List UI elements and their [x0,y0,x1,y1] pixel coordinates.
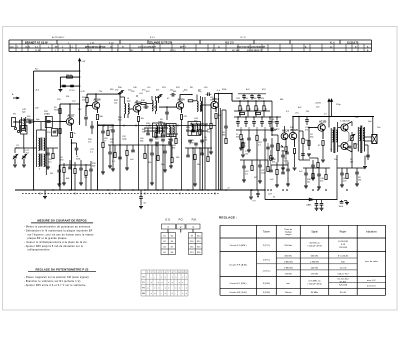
IF coils L3 [152,101,153,111]
svg-text:x: x [182,282,183,284]
wire [159,106,177,108]
transistor T6a AF126 [281,133,288,140]
wire input to T1 base [34,121,67,123]
emitter chain T5 [215,108,217,112]
capacitor row above B4 [242,95,246,97]
svg-text:FM: FM [142,288,145,290]
switch button GO [162,224,176,229]
wire under cans [144,130,165,132]
electrolytic C30 [140,190,142,196]
antenna FM [119,93,121,97]
resistor R3 divider [59,104,61,190]
wire row mid [234,110,270,112]
wire T7 base [309,127,318,129]
inter-stage caps upper belt [144,105,146,109]
switch button PO [177,224,186,229]
svg-text:2 (P.O.): 2 (P.O.) [263,260,271,262]
svg-text:OC 75: OC 75 [240,37,247,39]
svg-text:sur l'équerre, ceci vis axe de: sur l'équerre, ceci vis axe de liaison a… [28,233,95,236]
capacitor C25 [305,119,309,121]
switch stems [167,229,169,233]
svg-text:AF126: AF126 [282,130,290,133]
svg-text:4: 4 [158,272,159,274]
svg-text:AC127 AF117: AC127 AF117 [52,36,65,39]
svg-text:moyen: moyen [285,234,292,236]
transistor T5 AF114 [211,101,218,108]
cluster between T3 and T4 [167,133,178,135]
svg-text:0 mV D.V.: 0 mV D.V. [367,285,377,287]
svg-text:+13,5V: +13,5V [315,103,322,105]
svg-text:max. D.V.: max. D.V. [367,280,376,282]
svg-text:Circuits F.I. (A.M.): Circuits F.I. (A.M.) [229,244,246,247]
svg-text:+9V: +9V [82,61,86,63]
transistor T8 AC128 [341,124,348,131]
svg-text:15k: 15k [82,99,85,101]
capacitor C8 [165,111,169,113]
svg-text:170 kHz: 170 kHz [311,273,319,275]
svg-text:10: 10 [178,272,180,274]
svg-text:7: 7 [168,272,169,274]
svg-text:- Débrancher le fil maintenant: - Débrancher le fil maintenant la plaque… [24,229,93,232]
svg-text:1 380 kHz: 1 380 kHz [310,261,319,263]
svg-text:x: x [182,293,183,295]
rail pair left of T5 [202,97,204,190]
wire T2 base [86,105,93,107]
svg-text:2 (P.O.): 2 (P.O.) [263,245,271,247]
wire T1 collector [69,104,71,118]
svg-text:10k: 10k [281,151,284,153]
transistor T1 AF117 [66,118,73,125]
svg-text:3 (F.M.): 3 (F.M.) [263,283,271,285]
detector pair lower RC [267,143,269,165]
svg-text:C6 -C8: C6 -C8 [340,267,347,269]
bus right jog [264,190,266,200]
svg-text:F.M.: F.M. [192,218,197,222]
svg-text:AF117: AF117 [68,115,76,118]
svg-text:x: x [182,276,183,278]
svg-text:11: 11 [182,272,184,274]
svg-text:GO: GO [142,276,145,278]
svg-text:- Insérer le milliampèremètre: - Insérer le milliampèremètre à la place… [24,241,88,244]
svg-text:AF114: AF114 [178,99,186,102]
contact bank right [189,233,203,255]
svg-text:6,75 MHz via: 6,75 MHz via [309,281,322,283]
diode D2 [309,198,312,201]
wire left rail [33,71,35,190]
wire base T3 [128,108,133,110]
output stage lower wires [337,167,365,169]
svg-text:1k: 1k [74,133,76,135]
svg-text:- Placer l'appareil sur la pos: - Placer l'appareil sur la position FM (… [24,276,90,279]
svg-text:1 000 pF -N733: 1 000 pF -N733 [307,246,322,248]
svg-text:AC125: AC125 [319,121,327,124]
IF coils L4 [197,101,198,111]
cluster under T1 T2 [58,165,60,170]
tuning gang dashed coupling [38,150,40,170]
svg-text:3 (F.M.): 3 (F.M.) [263,292,271,294]
cluster under T2 right [98,124,115,126]
svg-text:12 W: 12 W [35,50,40,52]
ground stub A [44,190,46,196]
arrow mark left margin [13,97,18,99]
svg-text:205 1026-AHA APP: 205 1026-AHA APP [138,45,157,48]
IF can S1 boxed [153,123,166,137]
resistor R6 [86,98,88,103]
svg-text:x: x [179,288,180,290]
svg-text:12: 12 [185,272,187,274]
svg-text:630 kHz: 630 kHz [285,255,293,257]
ground [59,86,61,89]
svg-text:MESURE DU COURANT DE REPOS: MESURE DU COURANT DE REPOS [37,219,86,223]
ground [321,159,325,161]
emitter T7 [322,131,324,140]
AGC line crossing marks [103,124,105,126]
svg-text:- Ajuster R25 entre 0,3 et 0,7: - Ajuster R25 entre 0,3 et 0,7 V sur le … [24,284,87,287]
wire T1 base [60,121,67,123]
wire collectors [346,122,352,125]
svg-text:OA85: OA85 [306,204,312,207]
transistor T9 AC128 [341,142,348,149]
bus B3 supply [293,116,374,118]
wire [336,191,338,200]
svg-text:Régler: Régler [340,231,347,234]
resistor T6 load [302,139,304,144]
svg-text:x: x [168,282,169,284]
wire row two [234,116,281,118]
capacitor C3 [26,121,34,123]
ground [363,166,367,168]
title block table top [9,39,372,41]
mid cluster under IF strip [108,144,172,146]
resistor on T4 collector [188,100,193,102]
svg-text:REGLAGE DU POTENTIOMETRE P: REGLAGE DU POTENTIOMETRE P 25 [36,267,89,271]
T5 bias components [210,105,212,118]
wire bases push-pull [338,127,341,129]
AGC wire across IF strip [98,125,217,127]
wire T3 collector [136,100,138,105]
svg-text:1 (G.O.): 1 (G.O.) [263,271,271,273]
loudspeaker [372,135,377,144]
svg-text:x: x [186,276,187,278]
T6 T7 coupling [302,152,304,160]
svg-text:10n: 10n [334,159,337,161]
svg-text:6: 6 [165,272,166,274]
capacitor C1 [59,77,61,86]
ground [139,206,143,208]
capacitor C5 [90,125,94,127]
svg-text:94 MHz: 94 MHz [311,292,318,294]
emitter T6 [294,140,296,148]
node +9V arrow [79,60,81,125]
capacitor C6 box [21,126,28,135]
svg-text:OC71 OC72 2xOC74 AC107: OC71 OC72 2xOC74 AC107 [237,45,266,48]
svg-text:max. de sortie: max. de sortie [365,260,379,263]
svg-text:6 CV: 6 CV [109,42,114,44]
coil L2 double [125,104,126,114]
transistor T7 AC125 [318,124,325,131]
svg-text:Indications: Indications [366,231,378,234]
svg-text:milliampèremètre.: milliampèremètre. [28,249,51,252]
svg-text:15.25.8.70: 15.25.8.70 [347,41,359,44]
signal path dots [119,93,120,94]
contact bank left [161,233,176,255]
svg-text:203 kHz: 203 kHz [311,267,319,269]
resistor R7 emitter [97,109,99,114]
svg-text:Circuits F.I. (F.M.): Circuits F.I. (F.M.) [230,282,247,285]
svg-text:- Brancher le voltmètre sur R1: - Brancher le voltmètre sur R1 (échelle … [24,280,82,283]
svg-text:Signal: Signal [311,232,318,234]
svg-text:G.O.: G.O. [165,218,171,222]
resistor NTC [351,136,353,141]
svg-text:x: x [161,276,162,278]
svg-text:ZELANDE 22 TR 278: ZELANDE 22 TR 278 [149,41,173,44]
wire antenna feed [119,97,121,191]
ground [345,202,349,204]
capacitor C31 [316,200,318,203]
ground stub B [250,190,252,196]
wire vertical pair [328,100,330,128]
svg-text:S25-S28: S25-S28 [339,284,348,286]
transistor T6 AC126 [289,132,296,139]
wire [201,104,212,106]
wire T5 collector [214,94,216,102]
capacitor C2 [70,84,74,86]
svg-text:S4 -S2: S4 -S2 [340,292,347,294]
trim capacitor CV1 [13,155,17,157]
wire T2 collector [95,94,97,102]
svg-text:10n: 10n [377,127,380,129]
svg-text:P.O.: P.O. [179,218,184,222]
svg-text:330k: 330k [54,109,58,111]
svg-text:1 390 kHz: 1 390 kHz [284,267,293,269]
svg-text:550 kHz: 550 kHz [284,245,292,247]
third row [236,129,276,131]
wire bottom right [299,159,310,161]
wire T6 base [288,135,290,137]
svg-text:BRANDT A7 X3 W: BRANDT A7 X3 W [25,41,48,44]
parts below cans [149,138,153,140]
svg-text:170 kHz: 170 kHz [285,273,293,275]
svg-text:2: 2 [151,272,152,274]
emitter chain T4 [181,109,183,114]
svg-text:AF116: AF116 [94,99,102,102]
svg-text:C20-S24: C20-S24 [339,247,348,249]
oscillator coil L1b [39,154,40,167]
AM detector second tier [240,159,268,161]
resistor bias [242,138,244,154]
capacitor C32 [321,200,323,203]
svg-text:AM: AM [142,292,145,295]
wire T6 collector [292,117,294,133]
chassis bus [15,189,265,191]
svg-text:R1 1k: R1 1k [67,74,72,76]
svg-text:41 A: 41 A [330,41,335,44]
svg-text:Stéréo: Stéréo [285,291,292,294]
svg-text:OA79: OA79 [274,128,280,131]
svg-text:1 500 pF -N732: 1 500 pF -N732 [307,284,322,286]
svg-text:630 kHz: 630 kHz [311,255,319,257]
svg-text:8: 8 [172,272,173,274]
switch button FM [186,224,200,229]
connector circles input [14,127,16,129]
battery 9V [257,190,259,198]
svg-text:APP 7: APP 7 [180,45,187,48]
svg-text:x: x [168,288,169,290]
svg-text:PU: PU [13,114,16,116]
resistor R1 filter [60,76,79,78]
svg-text:10n: 10n [128,90,131,92]
svg-text:REGLAGE :: REGLAGE : [219,215,237,219]
svg-text:452 kHz ou: 452 kHz ou [309,243,319,245]
bus B4 [232,100,272,102]
svg-text:3: 3 [154,272,155,274]
svg-text:9: 9 [175,272,176,274]
svg-text:C26-C7 S17: C26-C7 S17 [337,273,349,275]
svg-text:B 5 X: B 5 X [150,37,156,39]
svg-text:047 043: 047 043 [232,50,240,52]
rail right of gang [45,116,47,175]
svg-text:AF114 AF115 AF116: AF114 AF115 AF116 [85,45,106,48]
wire T4 collector [179,95,181,103]
emitter resistors push-pull [346,130,349,133]
resistor ladder on B4 [239,101,241,106]
capacitor C4 bypass [75,147,79,149]
svg-text:14 W: 14 W [25,46,30,48]
emitter chain T3 [138,111,140,116]
transistor T3 AF115 [133,105,141,113]
svg-text:1 380 kHz: 1 380 kHz [284,261,293,263]
detector lower cluster [270,165,272,170]
ground [293,167,297,169]
volume potentiometer P1 [277,135,279,162]
svg-text:- Ajuster R40 jusqu'à 5 mA: - Ajuster R40 jusqu'à 5 mA de déviation … [24,245,84,248]
svg-text:Tourne: Tourne [263,231,271,234]
oscillator coil L1a [36,136,38,167]
wire B3 right [372,117,374,135]
driver stage lower components [303,167,330,169]
svg-text:40. TA-TA/4E 22: 40. TA-TA/4E 22 [247,49,263,52]
svg-text:- Mettre le potentiomètre de p: - Mettre le potentiomètre de puissance a… [24,226,91,229]
svg-text:C2 50: C2 50 [69,90,75,92]
svg-text:R00 278: R00 278 [225,42,234,44]
resistor R10 to IF can [137,103,141,105]
driver transformer TR1 [330,128,332,152]
switch wafer marks on dashed line [39,192,41,195]
svg-text:x: x [158,288,159,290]
svg-text:1: 1 [147,272,148,274]
switch position grid [141,269,188,271]
resistor R5 emitter [71,125,73,132]
svg-text:L6 S9 S18: L6 S9 S18 [338,241,348,243]
rail mid [218,94,220,191]
diode D1 detector [271,101,273,135]
transistor T2 AF116 [92,102,99,109]
resistor bias mid [354,144,356,149]
electrolytic 1000uF [340,201,344,203]
svg-text:min.: min. [286,283,290,285]
dashed AGC line [22,193,219,195]
IF can S2 boxed [188,122,201,136]
trim capacitor CV2 [22,155,26,157]
antenna AM [158,97,160,101]
supply rail top-left [34,70,80,72]
svg-text:Circuits H.F. (F.M.): Circuits H.F. (F.M.) [229,291,247,294]
svg-text:S1 -S4 -S10: S1 -S4 -S10 [337,279,349,281]
svg-text:22 0,2: 22 0,2 [170,50,177,52]
svg-text:2 x AC128: 2 x AC128 [340,120,350,123]
feedback wire output [365,144,368,146]
svg-text:10n: 10n [242,145,245,147]
output transformer TR2 [357,127,359,152]
transistor T4 AF114 [176,102,183,109]
svg-text:x: x [154,288,155,290]
cluster right of oscillator coil [46,147,58,149]
detector RC cluster [271,138,273,145]
input pickup jack [13,121,22,123]
svg-text:plaque BF et la grande plaque.: plaque BF et la grande plaque. [28,237,68,240]
svg-text:S7-S11: S7-S11 [340,281,348,283]
svg-text:S Cr-S6-S5: S Cr-S6-S5 [338,254,349,257]
IF mid area extra components [144,127,168,129]
svg-text:5: 5 [161,272,162,274]
box right of gang [52,129,58,137]
svg-text:Circuits H.F. (A.M.): Circuits H.F. (A.M.) [229,263,247,266]
junction dots chassis [33,189,34,190]
